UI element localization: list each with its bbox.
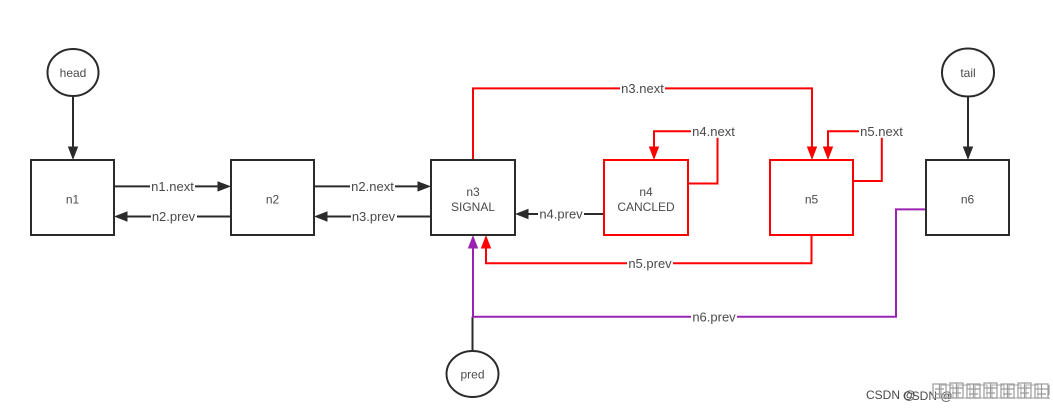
svg-text:SIGNAL: SIGNAL bbox=[451, 200, 495, 214]
wire head to n1 bbox=[68, 96, 78, 160]
wire tail to n6 bbox=[963, 97, 973, 161]
wire n3.next (red) bbox=[473, 81, 817, 160]
wire n4.next (red self loop) bbox=[649, 124, 736, 184]
wire n3.prev bbox=[314, 209, 431, 224]
svg-text:tail: tail bbox=[960, 66, 975, 80]
wire n4.prev bbox=[515, 207, 604, 222]
node n1 bbox=[31, 160, 114, 235]
svg-text:n3: n3 bbox=[466, 185, 480, 199]
node n2 bbox=[231, 160, 314, 235]
wire n6.prev (purple) bbox=[468, 209, 926, 324]
svg-text:n2.next: n2.next bbox=[351, 179, 394, 194]
watermark CSDN bbox=[866, 383, 1049, 403]
svg-text:n6.prev: n6.prev bbox=[692, 310, 736, 325]
svg-text:n3.next: n3.next bbox=[621, 81, 664, 96]
svg-text:CSDN @: CSDN @ bbox=[903, 389, 953, 403]
svg-text:pred: pred bbox=[460, 368, 484, 382]
node head (circle) bbox=[48, 49, 99, 96]
wire n2.next bbox=[314, 179, 431, 194]
wire n2.prev bbox=[114, 209, 231, 224]
svg-text:n1.next: n1.next bbox=[151, 179, 194, 194]
wire n5.next (red self loop) bbox=[823, 124, 904, 181]
svg-text:head: head bbox=[60, 66, 87, 80]
svg-text:n3.prev: n3.prev bbox=[352, 209, 396, 224]
svg-text:n5.next: n5.next bbox=[860, 124, 903, 139]
node n5 (red) bbox=[770, 160, 853, 235]
svg-text:n5.prev: n5.prev bbox=[628, 256, 672, 271]
node pred (circle) bbox=[447, 351, 499, 397]
svg-text:n4.next: n4.next bbox=[692, 124, 735, 139]
node n4 CANCLED (red) bbox=[604, 160, 688, 235]
svg-text:n2: n2 bbox=[266, 193, 280, 207]
svg-text:n4.prev: n4.prev bbox=[539, 207, 583, 222]
node n6 bbox=[926, 160, 1009, 235]
node n3 SIGNAL bbox=[431, 160, 515, 235]
node tail (circle) bbox=[942, 49, 994, 97]
svg-text:n6: n6 bbox=[961, 193, 975, 207]
wire n5.prev (red) bbox=[481, 235, 812, 271]
wire n1.next bbox=[114, 179, 231, 194]
svg-text:CANCLED: CANCLED bbox=[617, 200, 675, 214]
svg-text:n1: n1 bbox=[66, 193, 80, 207]
svg-text:n4: n4 bbox=[639, 185, 653, 199]
wire pred to n3 (black, lower part) bbox=[472, 317, 474, 351]
svg-text:n2.prev: n2.prev bbox=[152, 209, 196, 224]
svg-text:n5: n5 bbox=[805, 193, 819, 207]
